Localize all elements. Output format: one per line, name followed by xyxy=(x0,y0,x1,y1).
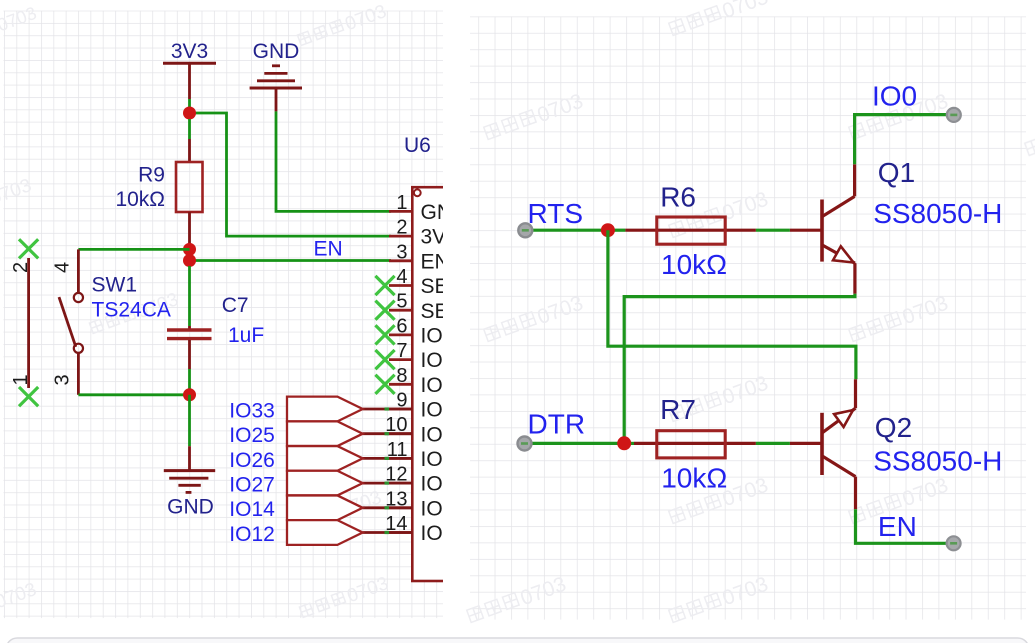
svg-text:TS24CA: TS24CA xyxy=(92,298,171,321)
svg-text:IO12: IO12 xyxy=(421,522,467,545)
svg-text:4: 4 xyxy=(396,266,407,288)
svg-text:GND: GND xyxy=(421,201,468,224)
svg-text:SS8050-H: SS8050-H xyxy=(873,198,1002,229)
svg-text:3V3: 3V3 xyxy=(421,226,458,249)
svg-text:7: 7 xyxy=(396,340,407,362)
svg-text:R6: R6 xyxy=(660,182,696,213)
svg-text:10kΩ: 10kΩ xyxy=(661,463,727,494)
svg-text:R9: R9 xyxy=(138,164,165,187)
svg-text:IO0: IO0 xyxy=(872,81,917,112)
svg-text:EN: EN xyxy=(878,511,917,542)
svg-text:IO25: IO25 xyxy=(421,423,467,446)
svg-text:RTS: RTS xyxy=(528,198,584,229)
svg-text:SS8050-H: SS8050-H xyxy=(873,445,1002,476)
svg-text:IO25: IO25 xyxy=(229,424,275,447)
svg-text:1uF: 1uF xyxy=(228,324,264,347)
svg-text:IO34: IO34 xyxy=(421,325,467,348)
svg-text:1: 1 xyxy=(396,192,407,214)
svg-text:IO27: IO27 xyxy=(229,474,275,497)
svg-text:10kΩ: 10kΩ xyxy=(115,188,165,211)
svg-text:DTR: DTR xyxy=(528,408,586,439)
svg-text:SW1: SW1 xyxy=(92,274,138,297)
svg-text:GND: GND xyxy=(253,40,300,63)
svg-text:10kΩ: 10kΩ xyxy=(661,249,727,280)
svg-text:IO32: IO32 xyxy=(421,374,467,397)
svg-text:IO35: IO35 xyxy=(421,349,467,372)
svg-text:IO33: IO33 xyxy=(229,399,275,422)
svg-text:Q1: Q1 xyxy=(878,157,915,188)
svg-text:IO14: IO14 xyxy=(421,497,467,520)
svg-text:3: 3 xyxy=(52,374,74,385)
svg-text:GND: GND xyxy=(167,496,214,519)
svg-text:6: 6 xyxy=(396,315,407,337)
svg-text:Q2: Q2 xyxy=(875,412,912,443)
svg-text:C7: C7 xyxy=(222,294,249,317)
svg-text:5: 5 xyxy=(396,291,407,313)
svg-text:3V3: 3V3 xyxy=(171,40,208,63)
svg-text:3: 3 xyxy=(396,241,407,263)
svg-text:IO26: IO26 xyxy=(421,448,467,471)
svg-text:4: 4 xyxy=(52,262,74,273)
svg-text:EN: EN xyxy=(421,250,450,273)
svg-text:IO33: IO33 xyxy=(421,399,467,422)
svg-text:IO26: IO26 xyxy=(229,449,275,472)
svg-text:IO12: IO12 xyxy=(229,523,275,546)
svg-text:EN: EN xyxy=(314,237,343,260)
svg-text:8: 8 xyxy=(396,365,407,387)
svg-text:2: 2 xyxy=(396,217,407,239)
svg-text:R7: R7 xyxy=(660,394,696,425)
svg-text:U6: U6 xyxy=(404,134,431,157)
svg-text:IO14: IO14 xyxy=(229,498,275,521)
svg-text:IO27: IO27 xyxy=(421,473,467,496)
